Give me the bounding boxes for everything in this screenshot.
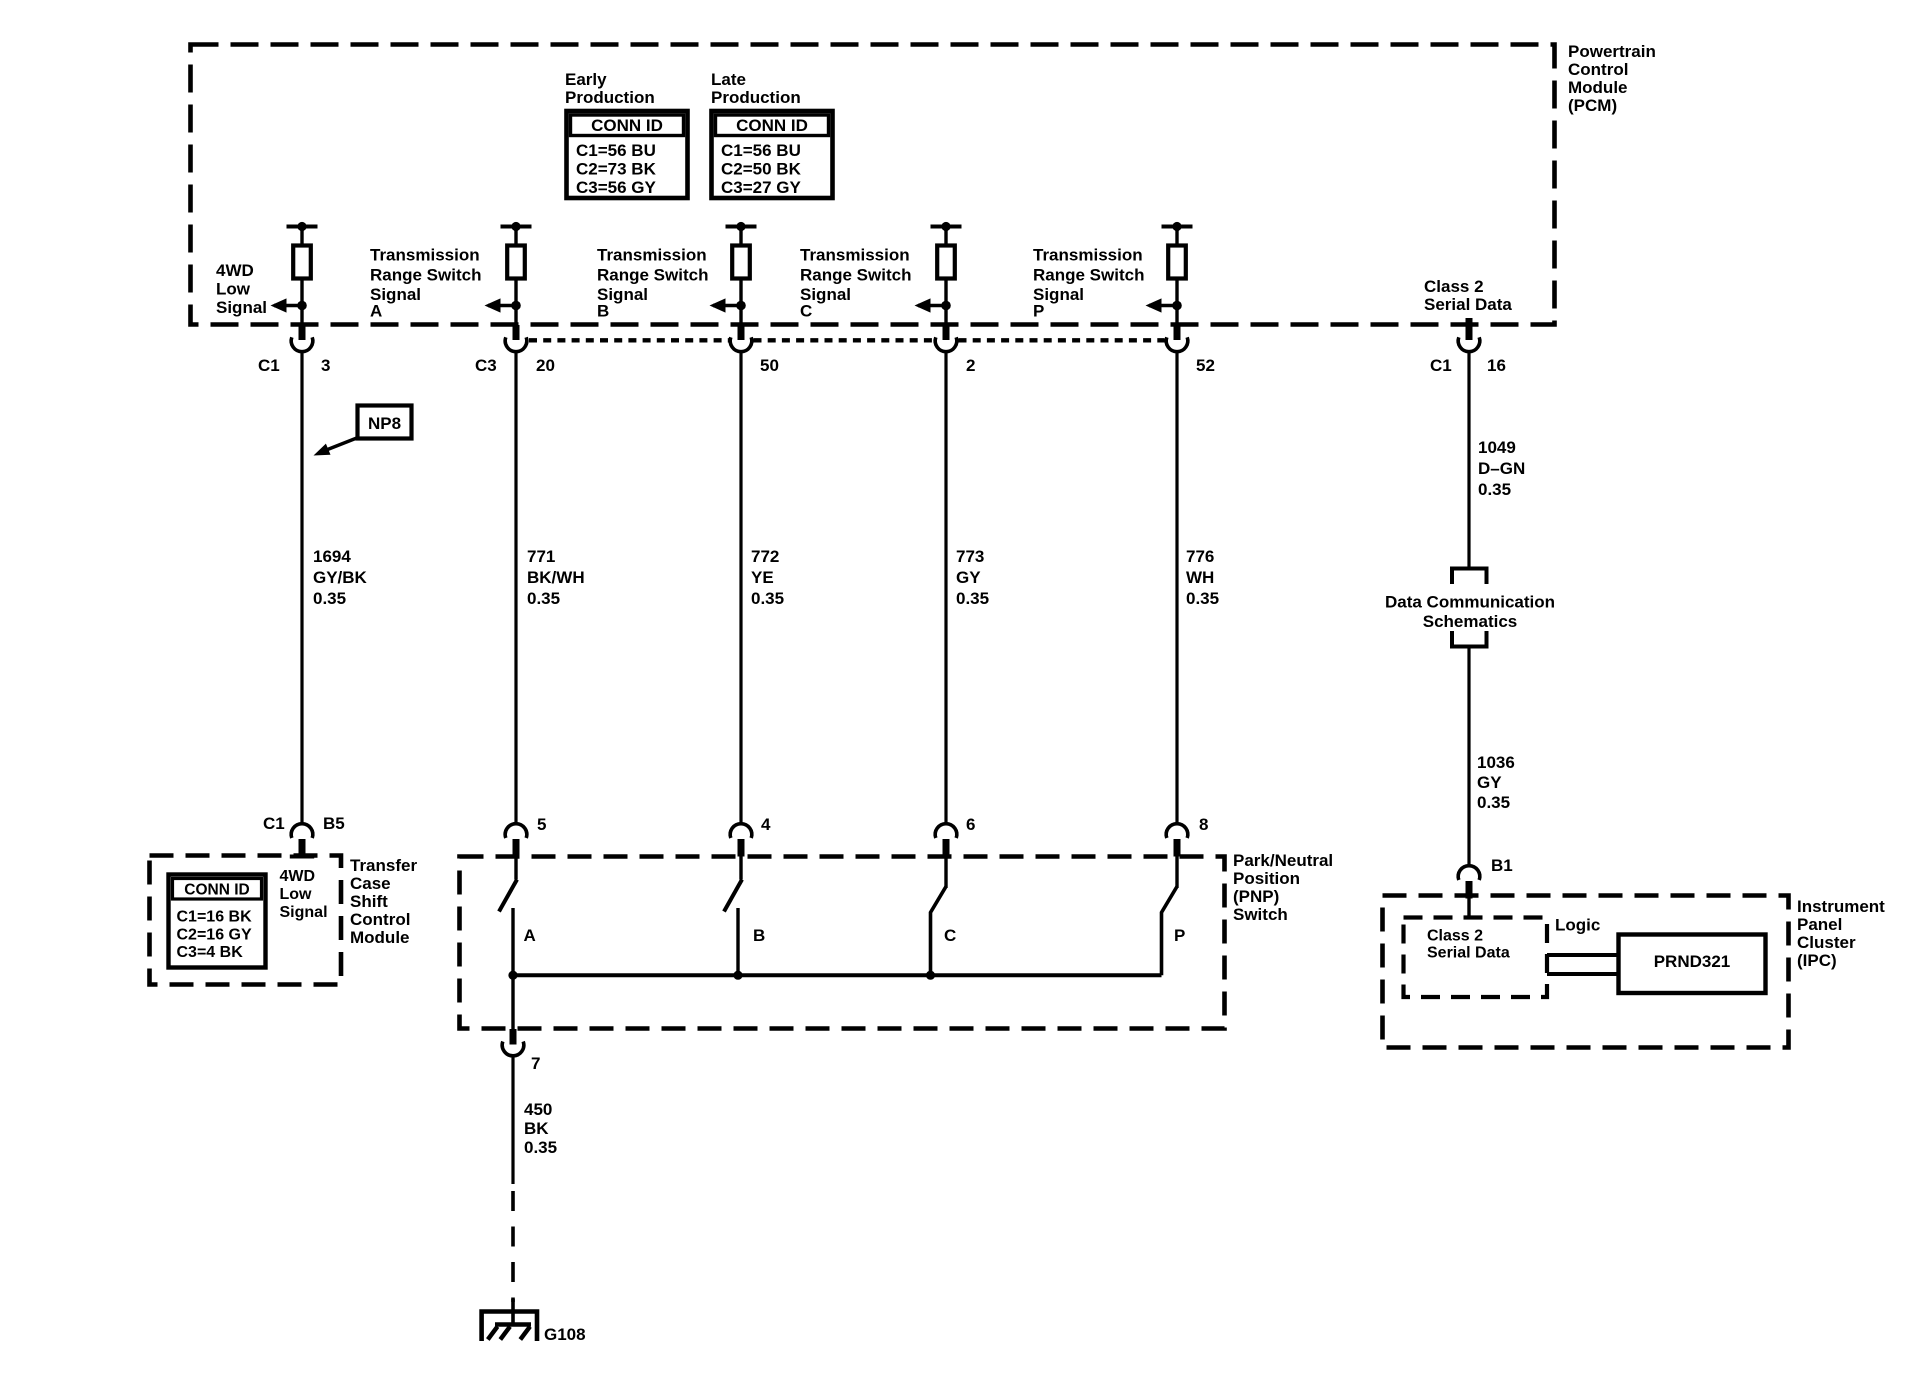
label Logic — [1555, 916, 1600, 935]
svg-text:Switch: Switch — [1233, 905, 1288, 924]
svg-text:Range Switch: Range Switch — [1033, 266, 1144, 285]
connector pin B1 (IPC) — [1458, 866, 1480, 899]
label 50 — [760, 356, 779, 375]
svg-text:CONN ID: CONN ID — [736, 116, 808, 135]
svg-text:Transmission: Transmission — [370, 246, 480, 265]
svg-text:0.35: 0.35 — [956, 589, 989, 608]
wire 1049 D-GN 0.35 — [1467, 352, 1470, 567]
wire 1036 GY 0.35 — [1467, 647, 1470, 867]
svg-text:Late: Late — [711, 70, 746, 89]
resistor (PCM pull-up, Transmission Range Switch Signal C) — [937, 246, 955, 279]
switch contact A (open) — [499, 854, 517, 975]
svg-text:Transmission: Transmission — [1033, 246, 1143, 265]
label 772 YE 0.35 — [751, 547, 784, 608]
label Transfer Case Shift Control Module — [350, 856, 417, 947]
svg-text:20: 20 — [536, 356, 555, 375]
label Transmission Range Switch Signal A — [370, 246, 481, 321]
arrow signal tap 4WD Low Signal — [271, 298, 307, 312]
svg-text:0.35: 0.35 — [751, 589, 784, 608]
svg-text:P: P — [1033, 302, 1044, 321]
label contact B — [753, 926, 765, 945]
svg-text:Serial Data: Serial Data — [1424, 295, 1512, 314]
wire B1 pin to Class 2 node — [1467, 897, 1470, 918]
svg-text:CONN ID: CONN ID — [591, 116, 663, 135]
wire 450 BK 0.35 — [511, 1057, 514, 1185]
connector pin 8 (PNP switch) — [1166, 824, 1188, 857]
wire 776 WH 0.35 — [1175, 352, 1178, 824]
svg-text:C2=73 BK: C2=73 BK — [576, 160, 657, 179]
svg-text:3: 3 — [321, 356, 330, 375]
svg-text:Low: Low — [216, 280, 251, 299]
connector C3 pin 20 (PCM) — [505, 325, 527, 352]
svg-text:0.35: 0.35 — [524, 1138, 557, 1157]
resistor (PCM pull-up, Transmission Range Switch Signal A) — [507, 246, 525, 279]
label 773 GY 0.35 — [956, 547, 989, 608]
svg-text:(IPC): (IPC) — [1797, 951, 1837, 970]
svg-text:C1: C1 — [1430, 356, 1452, 375]
svg-text:776: 776 — [1186, 547, 1214, 566]
svg-text:C2=16 GY: C2=16 GY — [177, 927, 252, 944]
svg-text:YE: YE — [751, 568, 774, 587]
label Powertrain Control Module (PCM) — [1568, 42, 1656, 115]
label C1 / B5 — [263, 814, 345, 833]
label Transmission Range Switch Signal C — [800, 246, 911, 321]
label C1 / 3 — [258, 356, 330, 375]
table CONN ID (late production connector IDs) — [712, 111, 833, 198]
svg-text:C2=50 BK: C2=50 BK — [721, 160, 802, 179]
svg-text:1694: 1694 — [313, 547, 351, 566]
svg-text:Module: Module — [1568, 78, 1628, 97]
label Late Production — [711, 70, 801, 107]
arrow signal tap Transmission Range Switch Signal C — [915, 298, 951, 312]
svg-text:C: C — [944, 926, 956, 945]
label 2 — [966, 356, 975, 375]
label Class 2 Serial Data (PCM) — [1424, 277, 1512, 314]
label B1 — [1491, 856, 1513, 875]
svg-text:Range Switch: Range Switch — [370, 266, 481, 285]
svg-text:C1: C1 — [258, 356, 280, 375]
svg-text:C1=16 BK: C1=16 BK — [177, 909, 253, 926]
svg-text:PRND321: PRND321 — [1654, 952, 1731, 971]
svg-text:Shift: Shift — [350, 892, 388, 911]
svg-text:1049: 1049 — [1478, 438, 1516, 457]
junction dot C — [926, 971, 935, 980]
svg-text:GY: GY — [1477, 773, 1502, 792]
label 450 BK 0.35 — [524, 1100, 557, 1157]
wire logic bus lower — [1547, 972, 1619, 976]
svg-text:1036: 1036 — [1477, 753, 1515, 772]
label pin 6 — [966, 815, 975, 834]
connector C1 pin 3 (PCM) — [291, 325, 313, 352]
switch contact P (closed) — [1162, 854, 1178, 975]
arrow NP8 pointer — [314, 438, 359, 456]
svg-text:C1=56 BU: C1=56 BU — [576, 141, 656, 160]
svg-text:Transmission: Transmission — [597, 246, 707, 265]
connector pin 2 (PCM C3) — [935, 325, 957, 352]
label 1694 GY/BK 0.35 — [313, 547, 368, 608]
wire dashed continuation to ground — [511, 1191, 515, 1302]
svg-text:50: 50 — [760, 356, 779, 375]
resistor (PCM pull-up, Transmission Range Switch Signal B) — [732, 246, 750, 279]
arrow signal tap Transmission Range Switch Signal A — [485, 298, 521, 312]
svg-text:4WD: 4WD — [216, 261, 254, 280]
wire 773 GY 0.35 — [944, 352, 947, 824]
junction dot A — [508, 971, 517, 980]
wire bus to pin 7 — [511, 975, 514, 1029]
wire resistor to PCM edge (Transmission Range Switch Signal P) — [1175, 279, 1178, 326]
wire 4WD Low Signal internal T-bar termination — [287, 222, 318, 247]
svg-text:7: 7 — [531, 1054, 540, 1073]
svg-text:Class 2: Class 2 — [1427, 928, 1483, 945]
resistor (PCM pull-up, Transmission Range Switch Signal P) — [1168, 246, 1186, 279]
dotted link joining C3 connector cavities — [529, 338, 1165, 342]
label 776 WH 0.35 — [1186, 547, 1219, 608]
svg-text:Module: Module — [350, 928, 410, 947]
off-page reference break (Data Communication Schematics) — [1452, 569, 1487, 647]
table CONN ID (early production connector IDs) — [567, 111, 688, 198]
label C1 / 16 — [1430, 356, 1506, 375]
svg-text:0.35: 0.35 — [313, 589, 346, 608]
module S1 Park/Neutral Position (PNP) Switch dashed outline — [460, 857, 1225, 1029]
arrow signal tap Transmission Range Switch Signal B — [710, 298, 746, 312]
svg-text:Signal: Signal — [280, 904, 328, 921]
svg-text:52: 52 — [1196, 356, 1215, 375]
svg-text:(PNP): (PNP) — [1233, 887, 1279, 906]
svg-text:Position: Position — [1233, 869, 1300, 888]
connector C1 pin B5 (Transfer Case Shift Control Module) — [291, 824, 313, 857]
svg-text:772: 772 — [751, 547, 779, 566]
svg-text:Instrument: Instrument — [1797, 897, 1885, 916]
switch contact B (open) — [724, 854, 742, 975]
ground G108 — [482, 1299, 537, 1341]
label Transmission Range Switch Signal B — [597, 246, 708, 321]
block PRND321 display — [1619, 935, 1766, 994]
svg-text:Range Switch: Range Switch — [800, 266, 911, 285]
svg-text:P: P — [1174, 926, 1185, 945]
svg-text:Cluster: Cluster — [1797, 933, 1856, 952]
svg-text:Transmission: Transmission — [800, 246, 910, 265]
label pin 7 — [531, 1054, 540, 1073]
label Park/Neutral Position (PNP) Switch — [1233, 851, 1333, 924]
svg-text:D–GN: D–GN — [1478, 459, 1525, 478]
svg-text:0.35: 0.35 — [1186, 589, 1219, 608]
svg-text:Class 2: Class 2 — [1424, 277, 1484, 296]
wire resistor to PCM edge (Transmission Range Switch Signal A) — [514, 279, 517, 326]
svg-text:B: B — [597, 302, 609, 321]
arrow signal tap Transmission Range Switch Signal P — [1146, 298, 1182, 312]
label contact C — [944, 926, 956, 945]
svg-text:WH: WH — [1186, 568, 1214, 587]
svg-text:C1: C1 — [263, 814, 285, 833]
wire 772 YE 0.35 — [739, 352, 742, 824]
wire resistor to PCM edge (4WD Low Signal) — [300, 279, 303, 326]
svg-text:450: 450 — [524, 1100, 552, 1119]
label pin 4 — [761, 815, 771, 834]
svg-text:Early: Early — [565, 70, 607, 89]
svg-text:6: 6 — [966, 815, 975, 834]
label C3 / 20 — [475, 356, 555, 375]
svg-text:0.35: 0.35 — [527, 589, 560, 608]
label 1049 D-GN 0.35 — [1478, 438, 1525, 499]
table CONN ID (TCSCM connector IDs) — [169, 875, 266, 968]
svg-text:Logic: Logic — [1555, 916, 1600, 935]
label G108 — [544, 1325, 586, 1344]
label Early Production — [565, 70, 655, 107]
connector pin 5 (PNP switch) — [505, 824, 527, 857]
wire 771 BK/WH 0.35 — [514, 352, 517, 824]
svg-text:Schematics: Schematics — [1423, 612, 1518, 631]
label contact P — [1174, 926, 1185, 945]
svg-text:A: A — [370, 302, 382, 321]
svg-text:C3: C3 — [475, 356, 497, 375]
svg-text:Low: Low — [280, 886, 313, 903]
label 4WD Low Signal (TCSCM input) — [280, 868, 328, 921]
svg-text:4WD: 4WD — [280, 868, 316, 885]
svg-text:GY: GY — [956, 568, 981, 587]
label 4WD Low Signal (PCM) — [216, 261, 267, 317]
node Class 2 Serial Data (IPC internal, dashed) — [1404, 918, 1548, 998]
module U1 Powertrain Control Module (PCM) dashed outline — [191, 45, 1555, 325]
resistor (PCM pull-up, 4WD Low Signal) — [293, 246, 311, 279]
switch contact C (closed) — [931, 854, 947, 975]
wire Transmission Range Switch Signal C internal T-bar termination — [931, 222, 962, 247]
label 771 BK/WH 0.35 — [527, 547, 585, 608]
svg-text:2: 2 — [966, 356, 975, 375]
svg-text:B1: B1 — [1491, 856, 1513, 875]
svg-text:Powertrain: Powertrain — [1568, 42, 1656, 61]
label contact A — [524, 926, 536, 945]
svg-text:4: 4 — [761, 815, 771, 834]
svg-text:C1=56 BU: C1=56 BU — [721, 141, 801, 160]
label Data Communication Schematics — [1385, 593, 1555, 632]
wire common bus inside PNP switch — [513, 973, 1162, 977]
svg-text:BK: BK — [524, 1119, 549, 1138]
connector pin 4 (PNP switch) — [730, 824, 752, 857]
svg-text:Transfer: Transfer — [350, 856, 417, 875]
svg-text:BK/WH: BK/WH — [527, 568, 585, 587]
label NP8 (RPO callout box) — [358, 406, 412, 439]
svg-text:A: A — [524, 926, 536, 945]
module U2 Transfer Case Shift Control Module dashed outline — [150, 856, 342, 985]
svg-text:Signal: Signal — [216, 298, 267, 317]
svg-text:C3=27 GY: C3=27 GY — [721, 178, 802, 197]
wire resistor to PCM edge (Transmission Range Switch Signal B) — [739, 279, 742, 326]
svg-text:Panel: Panel — [1797, 915, 1842, 934]
svg-text:Data Communication: Data Communication — [1385, 593, 1555, 612]
label pin 5 — [537, 815, 546, 834]
svg-text:16: 16 — [1487, 356, 1506, 375]
wire 1694 GY/BK 0.35 — [300, 352, 303, 824]
svg-text:Serial Data: Serial Data — [1427, 945, 1510, 962]
svg-text:773: 773 — [956, 547, 984, 566]
svg-text:Range Switch: Range Switch — [597, 266, 708, 285]
svg-text:GY/BK: GY/BK — [313, 568, 368, 587]
svg-text:Production: Production — [565, 88, 655, 107]
label Transmission Range Switch Signal P — [1033, 246, 1144, 321]
junction dot B — [733, 971, 742, 980]
label Instrument Panel Cluster (IPC) — [1797, 897, 1885, 970]
svg-text:C3=4 BK: C3=4 BK — [177, 944, 244, 961]
wire B5 pin into TCSCM with T-bar termination — [290, 849, 314, 857]
svg-text:0.35: 0.35 — [1478, 480, 1511, 499]
label pin 8 — [1199, 815, 1208, 834]
svg-text:G108: G108 — [544, 1325, 586, 1344]
svg-text:B: B — [753, 926, 765, 945]
wire Transmission Range Switch Signal B internal T-bar termination — [726, 222, 757, 247]
label 52 — [1196, 356, 1215, 375]
svg-text:C3=56 GY: C3=56 GY — [576, 178, 657, 197]
label 1036 GY 0.35 — [1477, 753, 1515, 812]
wire resistor to PCM edge (Transmission Range Switch Signal C) — [944, 279, 947, 326]
wire Transmission Range Switch Signal A internal T-bar termination — [501, 222, 532, 247]
connector pin 52 (PCM C3) — [1166, 325, 1188, 352]
svg-text:NP8: NP8 — [368, 414, 401, 433]
connector pin 6 (PNP switch) — [935, 824, 957, 857]
connector pin 7 (PNP switch, below) — [502, 1029, 524, 1056]
module U3 Instrument Panel Cluster (IPC) dashed outline — [1383, 896, 1789, 1048]
svg-text:Control: Control — [350, 910, 410, 929]
svg-text:5: 5 — [537, 815, 546, 834]
svg-text:CONN ID: CONN ID — [184, 882, 249, 899]
svg-text:Production: Production — [711, 88, 801, 107]
svg-text:(PCM): (PCM) — [1568, 96, 1617, 115]
wire Transmission Range Switch Signal P internal T-bar termination — [1162, 222, 1193, 247]
connector C1 pin 16 (PCM) — [1466, 318, 1473, 326]
wire logic bus upper — [1547, 953, 1619, 957]
svg-text:Control: Control — [1568, 60, 1628, 79]
connector pin 50 (PCM C3) — [730, 325, 752, 352]
svg-text:8: 8 — [1199, 815, 1208, 834]
svg-text:Case: Case — [350, 874, 391, 893]
svg-text:C: C — [800, 302, 812, 321]
svg-text:771: 771 — [527, 547, 555, 566]
svg-text:0.35: 0.35 — [1477, 793, 1510, 812]
svg-text:Park/Neutral: Park/Neutral — [1233, 851, 1333, 870]
svg-text:B5: B5 — [323, 814, 345, 833]
